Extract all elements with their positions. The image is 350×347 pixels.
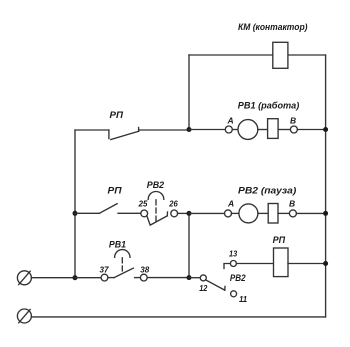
time relay RV1 winding circle [238,120,258,140]
svg-text:26: 26 [168,199,178,209]
svg-text:РВ1 (работа): РВ1 (работа) [238,101,299,112]
node junction at (75,213.3) [73,211,78,216]
dashed actuator link RV1 [121,258,123,274]
svg-text:РП: РП [273,235,286,246]
contact RV1 right stub [135,277,141,279]
wire node to contact 37 [75,277,101,279]
terminal A of RV1 [225,126,232,133]
dashed actuator link RV2 [155,200,157,221]
terminal A of RV2 [225,210,232,217]
wire A to winding (RV2) [232,212,239,214]
svg-text:РВ2: РВ2 [230,273,246,284]
changeover contact RV2: pin13 fixed hook [224,264,230,269]
wire contact38 to node [147,277,189,279]
time relay RV2 element box [268,204,278,224]
node junction at (325.6,263.5) [323,261,328,266]
wire RV1 row lead-in [189,129,225,131]
contact RV2 pin 25 terminal [141,210,148,217]
wire box to B (RV2) [278,212,289,214]
contact RV1 pin 38 terminal [140,274,147,281]
wire terminal2 stub to bottom bus [31,316,325,318]
svg-text:РВ2: РВ2 [147,180,165,191]
wire A to winding [232,129,238,131]
wire node to pin 12 [189,277,200,279]
svg-text:РП: РП [108,186,122,197]
contact RV2 blade (V shape hanging) [147,216,168,226]
input terminal 2 (slashed) [17,309,31,323]
svg-text:В: В [290,116,296,126]
terminal B of RV1 [290,126,297,133]
contact RP (top, normally-open) : left wire [75,129,109,131]
node junction at (325.6,213.4) [323,211,328,216]
input terminal 1 (slashed) [17,271,31,285]
node junction at (189,277.6) [187,275,192,280]
wire right vertical bus [325,55,327,317]
contact RP (top) blade [111,131,139,139]
contact RP (middle, normally-open) : left wire [75,212,99,214]
terminal 2 slash [19,309,31,322]
node junction at (325.6,129.5) [323,127,328,132]
node junction at (189,213.4) [187,211,192,216]
svg-text:11: 11 [239,294,247,304]
wire box to B [278,129,290,131]
time relay RV1 element box [268,119,279,139]
svg-text:13: 13 [229,249,237,259]
svg-text:КМ (контактор): КМ (контактор) [238,22,308,33]
contact RV2 pin 26 terminal [171,210,178,217]
terminal 1 slash [19,271,31,284]
svg-text:А: А [227,116,234,126]
svg-text:В: В [289,199,295,209]
terminal pin 13 [230,261,236,267]
terminal B of RV2 [289,210,296,217]
terminal pin 12 [200,275,206,281]
contact RP (middle) right wire [118,212,141,214]
relay coil RP [274,248,289,277]
wire left vertical bus lower (x=189) [188,213,190,277]
contact RV2 blade end tick [166,212,168,216]
wire B to right bus (RV2) [296,212,325,214]
node junction at (75,277.7) [73,275,78,280]
wire left vertical bus (outer, x=75) [74,130,76,278]
contact RV1 fixed stub [108,277,114,279]
node junction at (189,129.5) [187,127,192,132]
wire left vertical bus upper (x=189) [188,55,190,130]
wire terminal1 to node [31,277,75,279]
svg-text:12: 12 [199,283,207,293]
svg-text:25: 25 [138,199,148,209]
contact RV1 pin 37 terminal [101,274,108,281]
terminal pin 11 [231,291,237,297]
contact RP (top) fixed terminal tick [108,130,110,139]
svg-text:РП: РП [110,110,124,121]
wire coil to right bus [288,263,326,265]
wire pin26 to node [178,212,189,214]
wire top bus left segment [189,54,273,56]
time-delay arc of RV1 contact [115,250,130,258]
changeover blade 12 to 11 [206,280,225,290]
svg-text:А: А [227,199,234,209]
contact RP (top) right wire [140,129,189,131]
wire winding to box (RV2) [258,212,268,214]
changeover blade end tick [224,286,226,290]
contact RP (middle) blade [99,204,117,214]
wire winding to resistor [258,129,268,131]
svg-text:РВ2 (пауза): РВ2 (пауза) [238,185,296,196]
wire RV2 row lead-in [189,212,225,214]
svg-text:РВ1: РВ1 [109,239,126,250]
contact RP (top) end tick [138,128,140,132]
time relay RV2 winding circle [239,204,258,223]
svg-text:38: 38 [140,264,149,274]
contactor coil KM [273,42,288,68]
svg-text:37: 37 [100,264,110,274]
wire top bus right segment [288,54,326,56]
time-delay arc of RV2 contact [148,191,164,199]
wire pin13 to relay coil RP [236,263,273,265]
wire B to right bus [297,129,325,131]
contact RV1 blade [114,268,133,278]
